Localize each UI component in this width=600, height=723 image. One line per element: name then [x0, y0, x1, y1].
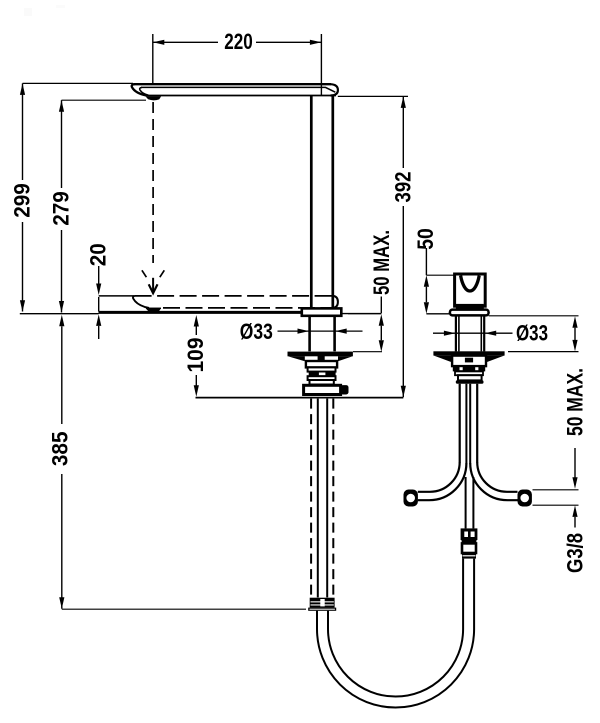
- dim 50 line: [425, 287, 427, 303]
- dim 50MAX right ext bottom: [508, 351, 579, 353]
- check valve middle: [462, 543, 476, 553]
- left hose bend top: [418, 462, 460, 492]
- fold arrow stem: [152, 278, 154, 291]
- nut band white slot: [319, 373, 326, 376]
- spout inner line: [141, 87, 335, 92]
- svg-text:Ø33: Ø33: [240, 319, 273, 344]
- housing box (right fig): [452, 356, 486, 367]
- dim 385 ext: [62, 608, 306, 610]
- dim 50 arrow down: [424, 302, 429, 314]
- lower box (right fig): [458, 375, 482, 380]
- spacer band: [308, 367, 336, 371]
- spout tip outer curve: [132, 84, 147, 95]
- central hose right line: [472, 477, 474, 528]
- G3/8 arrow up: [572, 505, 577, 517]
- twin hose left vertical outer: [459, 384, 461, 463]
- pullout hose U inner: [328, 559, 463, 697]
- lowered spout end cap: [333, 296, 338, 308]
- dim O33 right arrow left: [485, 331, 497, 336]
- lowered spout tip curve: [133, 296, 149, 308]
- hidden shank dashed right: [332, 399, 334, 598]
- lowered spout bottom dashed: [163, 307, 333, 309]
- valve housing box: [306, 361, 337, 367]
- svg-text:Ø33: Ø33: [516, 321, 548, 346]
- dim O33 right line: [433, 332, 513, 334]
- lower box 1: [308, 376, 336, 380]
- pullout hose line right: [326, 399, 328, 598]
- counter line thin left: [20, 313, 99, 315]
- dim 50MAX right arrow up: [572, 316, 577, 328]
- counter line thick: [99, 311, 302, 314]
- dim 392 ext top: [338, 95, 408, 97]
- lowered aerator: [146, 308, 161, 312]
- plate right wing (right fig): [486, 356, 504, 363]
- dim 220 arrow right: [310, 40, 322, 45]
- svg-text:299: 299: [10, 183, 35, 218]
- svg-text:G3/8: G3/8: [563, 533, 588, 573]
- faint artifact top: [56, 5, 65, 8]
- dim 279 ext: [62, 99, 147, 101]
- body tube outer right: [483, 315, 485, 352]
- right hose nut: [518, 490, 532, 507]
- supply stub body: [304, 385, 341, 394]
- dim 50MAX right lower leader: [574, 448, 576, 481]
- left hose bend bottom: [418, 463, 467, 500]
- dim 20 line upper: [98, 266, 100, 284]
- spout bottom edge: [147, 95, 337, 97]
- dim 20 arrow down: [96, 284, 101, 296]
- dim O33 left arrow right: [298, 329, 310, 334]
- dim O33 left arrow left: [335, 329, 347, 334]
- bottom bar (right fig): [456, 380, 484, 384]
- dim 385 line: [61, 326, 63, 424]
- dim 109 arrow up: [194, 315, 199, 327]
- counter line mid (50 dim to collar): [426, 313, 450, 315]
- dim 220 line: [153, 41, 218, 43]
- plate left wing (right fig): [434, 356, 452, 363]
- body tube inner right: [480, 315, 482, 352]
- spout inner tip curl: [140, 87, 149, 95]
- counter line mid (left of 50MAX dim): [341, 313, 381, 315]
- dim 20 arrow up below: [96, 314, 101, 326]
- G3/8 leader: [574, 517, 576, 528]
- dim 20 leader across: [98, 297, 100, 312]
- dim 392 arrow down: [401, 386, 406, 398]
- dim 109 line: [195, 327, 197, 336]
- mounting plate bar (right): [433, 351, 504, 355]
- G3/8 ext bottom: [533, 504, 579, 506]
- nut band white slots (right fig): [460, 367, 463, 370]
- handle notch: [461, 276, 480, 291]
- nut band (right fig): [453, 366, 485, 371]
- dim 220 arrow left: [153, 40, 165, 45]
- dim O33 left line: [278, 330, 363, 332]
- spacer (right fig): [455, 371, 483, 375]
- lowered spout top dashed: [135, 295, 333, 297]
- check valve top block: [461, 528, 478, 543]
- dim 279 line: [61, 100, 63, 188]
- housing square (right fig): [465, 358, 473, 363]
- svg-text:20: 20: [86, 243, 111, 266]
- lower box 2: [310, 380, 334, 385]
- faint artifact top-left: [24, 8, 32, 16]
- dim 50MAX left leader: [380, 297, 382, 314]
- fold arrow head: [149, 284, 158, 293]
- dim 392 line: [402, 96, 404, 168]
- fold arrow left diagonal: [142, 270, 147, 277]
- fold arrow dashed line: [152, 102, 154, 263]
- svg-text:385: 385: [48, 432, 73, 467]
- dim 385 arrow up: [59, 315, 64, 327]
- dim 50 ext: [426, 274, 454, 276]
- svg-text:50 MAX.: 50 MAX.: [563, 368, 588, 436]
- dim 50MAX left arrow down: [379, 340, 384, 352]
- body tube outer left: [455, 315, 457, 352]
- twin hose right vertical outer: [476, 384, 478, 463]
- dim O33 right arrow right: [444, 331, 456, 336]
- dim 392 arrow up: [401, 96, 406, 108]
- dim 50 right leader: [425, 248, 427, 275]
- right hose bend top: [477, 462, 517, 492]
- column right edge: [331, 96, 334, 309]
- svg-text:279: 279: [49, 191, 74, 226]
- mounting plate left wing: [288, 356, 305, 361]
- body tube inner left: [458, 315, 460, 352]
- collar: [450, 310, 489, 316]
- dim 220 ext right: [320, 34, 322, 96]
- dim 50MAX right line: [574, 328, 576, 340]
- mounting plate right wing: [338, 356, 353, 361]
- aerator (raised): [145, 96, 161, 100]
- mounting plate bar (left): [288, 352, 353, 357]
- dim 299 arrow down: [20, 300, 25, 312]
- check valve lower band: [462, 553, 476, 559]
- dim 109 arrow down: [194, 385, 199, 397]
- shank right: [333, 316, 336, 352]
- pullout hose line left: [317, 399, 319, 598]
- dim 50 arrow up: [424, 275, 429, 287]
- dim 299 line: [22, 83, 24, 180]
- G3/8 ext top: [533, 489, 579, 491]
- dim 279 arrow up: [59, 100, 64, 112]
- dim 50MAX left arrow up: [379, 314, 384, 326]
- svg-text:50 MAX.: 50 MAX.: [369, 230, 394, 295]
- column left edge: [310, 96, 313, 309]
- handle body: [455, 274, 486, 306]
- supply stub cap: [340, 385, 348, 394]
- dim 299 arrow up: [20, 83, 25, 95]
- central hose left line: [465, 477, 467, 528]
- lower counter line: [196, 397, 404, 399]
- spout right end cap: [331, 84, 338, 95]
- left hose nut: [404, 490, 418, 507]
- svg-text:392: 392: [391, 172, 416, 203]
- lowered spout bowl bottom: [146, 307, 161, 309]
- twin hose right vertical inner: [469, 384, 471, 464]
- shank left: [308, 316, 311, 352]
- dim 50MAX right ext top: [489, 315, 579, 317]
- svg-text:109: 109: [183, 338, 208, 373]
- dim 50MAX left ext: [348, 313, 381, 315]
- dim 220 ext left: [152, 34, 154, 84]
- fold arrow right diagonal: [160, 270, 165, 277]
- arrow down to hose: [572, 477, 577, 489]
- ribbed fitting: [308, 598, 336, 611]
- twin hose left vertical inner: [465, 384, 467, 464]
- lowered spout top line solid start: [99, 295, 135, 297]
- dim 279 arrow down: [59, 301, 64, 313]
- svg-text:220: 220: [224, 29, 253, 54]
- dim 50MAX left line: [380, 326, 382, 341]
- hidden shank dashed left: [310, 399, 312, 598]
- pullout hose U outer: [317, 559, 474, 708]
- handle bottom bar: [456, 304, 484, 310]
- dim 50MAX right arrow down: [572, 340, 577, 352]
- right hose bend bottom: [470, 463, 517, 500]
- spout top edge: [134, 83, 332, 85]
- dim 299 ext: [23, 82, 134, 84]
- nut band dark: [309, 372, 336, 377]
- housing black square: [318, 356, 325, 361]
- dim 385 arrow down: [59, 597, 64, 609]
- svg-text:50: 50: [413, 228, 438, 250]
- base flange: [302, 308, 342, 315]
